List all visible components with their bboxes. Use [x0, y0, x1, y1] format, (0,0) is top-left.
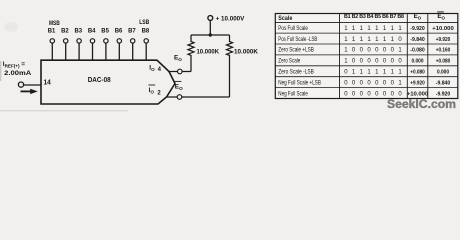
- supply rail wire: [191, 34, 230, 36]
- svg-text:Zero Scale +LSB: Zero Scale +LSB: [278, 47, 314, 54]
- svg-text:10.000K: 10.000K: [234, 49, 259, 56]
- wire IREF to pin 14: [24, 84, 41, 86]
- watermark smudge top-left: [4, 22, 18, 34]
- svg-text:0 1 1 1 1 1 1 1: 0 1 1 1 1 1 1 1: [344, 70, 402, 76]
- svg-text:1 1 1 1 1 1 1 1: 1 1 1 1 1 1 1 1: [344, 26, 402, 32]
- pin 4 label IO: [149, 65, 161, 73]
- svg-text:0.000: 0.000: [412, 59, 424, 65]
- input terminal B4: [88, 27, 96, 43]
- svg-text:14: 14: [44, 79, 51, 86]
- svg-text:+9.920: +9.920: [436, 37, 451, 43]
- table row 5 Zero Scale -LSB: [278, 69, 449, 76]
- wire IO-bar to EO-bar and R2: [167, 96, 230, 98]
- svg-text:0 0 0 0 0 0 0 0: 0 0 0 0 0 0 0 0: [344, 91, 402, 97]
- current direction arrow: [21, 89, 38, 94]
- wire B8 to DAC: [145, 43, 147, 60]
- svg-text:B8: B8: [142, 27, 150, 34]
- terminal IREF: [18, 82, 23, 87]
- svg-text:Pos Full Scale -LSB: Pos Full Scale -LSB: [278, 36, 317, 43]
- label LSB: [139, 19, 149, 26]
- wire B1 to DAC: [51, 43, 53, 60]
- svg-text:B5: B5: [101, 27, 109, 34]
- svg-text:Neg Full Scale +LSB: Neg Full Scale +LSB: [278, 79, 321, 86]
- svg-text:-0.080: -0.080: [410, 48, 425, 54]
- svg-text:2.00mA: 2.00mA: [4, 70, 31, 77]
- svg-text:0.000: 0.000: [437, 70, 449, 76]
- svg-text:-9.840: -9.840: [436, 80, 451, 86]
- input terminal B1: [48, 27, 56, 43]
- wire B7 to DAC: [132, 43, 134, 60]
- svg-text:Zero Scale -LSB: Zero Scale -LSB: [278, 69, 314, 76]
- resistor R1 10.000K: [188, 35, 219, 72]
- label MSB: [49, 20, 60, 27]
- svg-text:0 0 0 0 0 0 0 1: 0 0 0 0 0 0 0 1: [344, 80, 402, 86]
- wire B3 to DAC: [78, 43, 80, 60]
- pin 14 label: [44, 79, 51, 86]
- power terminal +10.000V: [208, 15, 245, 22]
- svg-text:Zero Scale: Zero Scale: [278, 58, 300, 65]
- terminal EO-bar: [175, 81, 183, 99]
- wire B4 to DAC: [92, 43, 94, 60]
- svg-text:B4: B4: [88, 27, 96, 34]
- svg-text:B6: B6: [115, 27, 123, 34]
- svg-text:+10.000: +10.000: [407, 91, 429, 97]
- resistor R2 10.000K: [227, 35, 259, 97]
- svg-text:+0.080: +0.080: [410, 70, 425, 76]
- svg-text:B2: B2: [61, 27, 69, 34]
- reference current label IREF: [3, 61, 32, 77]
- input terminal B2: [61, 27, 69, 43]
- input terminal B6: [115, 27, 123, 43]
- svg-text:B1: B1: [48, 27, 56, 34]
- svg-text:B7: B7: [128, 27, 136, 34]
- table row 4 Zero Scale: [278, 58, 450, 65]
- wire B6 to DAC: [118, 43, 120, 60]
- table row 6 Neg Full Scale +LSB: [278, 79, 450, 86]
- svg-text:MSB: MSB: [49, 20, 60, 27]
- svg-text:SeekIC.com: SeekIC.com: [387, 99, 456, 111]
- input terminal B7: [128, 27, 136, 43]
- table header row: [278, 12, 445, 22]
- svg-text:-9.920: -9.920: [436, 91, 451, 97]
- terminal EO: [174, 55, 182, 74]
- svg-text:+9.920: +9.920: [410, 80, 425, 86]
- input terminal B5: [101, 27, 109, 43]
- svg-text:Pos Full Scale: Pos Full Scale: [278, 25, 308, 32]
- table frame: [275, 14, 458, 99]
- svg-text:Neg Full Scale: Neg Full Scale: [278, 90, 308, 97]
- table row 7 Neg Full Scale: [278, 90, 450, 97]
- junction dot: [209, 33, 212, 36]
- svg-text:1 0 0 0 0 0 0 0: 1 0 0 0 0 0 0 0: [344, 59, 402, 65]
- table row 1 Pos Full Scale: [278, 25, 453, 32]
- svg-text:-9.840: -9.840: [410, 37, 425, 43]
- DAC U1 DAC-08 body: [41, 60, 175, 104]
- pin 2 label IO-bar: [148, 85, 161, 96]
- wire B2 to DAC: [65, 43, 67, 60]
- svg-text:Scale: Scale: [278, 15, 292, 22]
- watermark SeekIC.com: [387, 99, 456, 111]
- wire supply stub: [209, 20, 211, 35]
- svg-text:10.000K: 10.000K: [197, 49, 220, 56]
- svg-text:LSB: LSB: [139, 19, 149, 26]
- table row 3 Zero Scale +LSB: [278, 47, 450, 54]
- svg-text:-9.920: -9.920: [410, 26, 425, 32]
- svg-text:B3: B3: [75, 27, 83, 34]
- scan streak bottom-left: [0, 61, 128, 111]
- wire IO to EO terminal: [169, 71, 191, 73]
- svg-text:DAC-08: DAC-08: [88, 75, 111, 84]
- svg-text:+ 10.000V: + 10.000V: [216, 15, 245, 22]
- table row 2 Pos Full Scale -LSB: [278, 36, 450, 43]
- svg-text:+0.160: +0.160: [436, 48, 451, 54]
- input terminal B3: [75, 27, 83, 43]
- svg-text:+0.080: +0.080: [436, 59, 451, 65]
- svg-text:+10.000: +10.000: [432, 26, 454, 32]
- svg-text:1 0 0 0 0 0 0 1: 1 0 0 0 0 0 0 1: [344, 48, 402, 54]
- svg-text:1 1 1 1 1 1 1 0: 1 1 1 1 1 1 1 0: [344, 37, 402, 43]
- svg-text:B1 B2 B3 B4 B5 B6 B7 B8: B1 B2 B3 B4 B5 B6 B7 B8: [344, 14, 404, 20]
- input terminal B8: [142, 27, 150, 43]
- wire B5 to DAC: [105, 43, 107, 60]
